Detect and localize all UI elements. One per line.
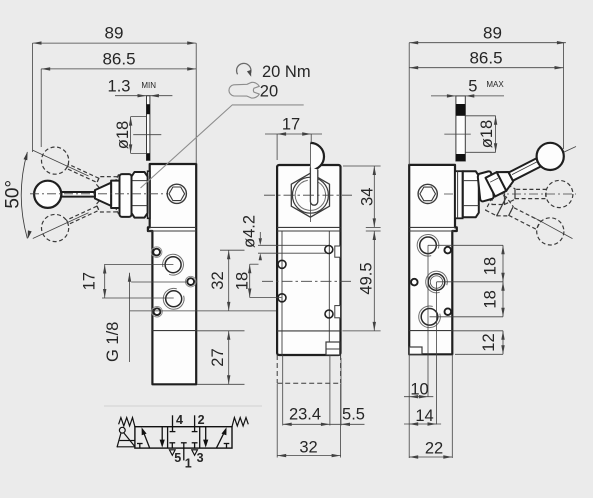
svg-text:MAX: MAX [486,80,504,89]
middle cell port stubs bottom [171,443,173,448]
left view lever centerline [30,193,168,195]
port 1 line [183,448,185,460]
front view hex nut [291,173,329,217]
right view vertical extension lines through body [427,245,429,397]
svg-text:27: 27 [209,348,227,366]
dimension 22 [409,456,452,458]
left view lever solid horizontal [111,181,119,208]
svg-text:G 1/8: G 1/8 [104,322,122,362]
swing radial line lower [33,213,89,239]
front view clip tab lower [335,306,341,318]
port 5 exhaust triangle [169,450,175,456]
box dividers [167,427,169,448]
svg-text:3: 3 [197,451,204,465]
dimension 10 [404,396,433,398]
left view body step lines [150,226,197,228]
right view nut hex [463,171,479,217]
dimension 23.4 and 5.5 [283,423,365,425]
port 2 line [194,415,196,426]
svg-text:5.5: 5.5 [342,406,365,424]
bar centerline right [444,133,471,135]
extension lines below front view [282,355,284,426]
dimension 86.5 left [41,68,196,70]
right view lever axis line down [531,216,572,238]
right view nut cap tilted [478,171,494,201]
front view inner vertical right [328,231,330,355]
left view port G1/8 bottom [166,291,182,307]
right view valve body [409,165,457,354]
right view nut washer [455,171,463,218]
front view clip tab upper [335,246,341,257]
extension stub small1 [220,249,245,251]
lever actuator symbol [119,427,125,433]
front view hidden base dashed [276,355,278,383]
dimension 89 left [33,42,197,44]
svg-text:ø4.2: ø4.2 [241,215,259,248]
svg-text:2: 2 [198,413,205,427]
dimension 17 left view [104,265,106,299]
left view hex socket [167,184,186,203]
dimension diam 18 left [130,117,132,154]
dimension 17 front view [265,133,322,135]
svg-text:ø18: ø18 [478,120,496,148]
right cell diagonal arrow [216,430,225,448]
left view lever nut hex [132,172,148,218]
dimension 14 [404,423,441,425]
left view valve body [148,164,196,384]
left cell diagonal arrow [143,430,150,448]
right cell down arrow [205,427,207,446]
50 degree swing arc [21,152,27,238]
spring left [119,418,135,427]
dimension 89 right [409,42,566,44]
dimension 49.5 [366,230,381,232]
svg-text:34: 34 [359,188,377,206]
dimension 5 MAX [431,95,504,97]
spring right [232,418,248,427]
bar centerline left [133,134,161,136]
dimension 12 [452,330,503,332]
dimension 32 left view [228,250,230,311]
wear band bar right [456,96,465,161]
svg-text:5: 5 [468,78,477,96]
leader line to nut [141,105,304,188]
front view mounting holes [278,260,286,268]
front view bottom-right notch [326,342,340,355]
right view port extension lines [428,244,503,246]
manifold line stub to bracket [196,330,244,332]
svg-text:32: 32 [209,271,227,289]
svg-text:50°: 50° [3,180,24,209]
right view bottom-left notch [409,347,422,354]
svg-text:23.4: 23.4 [289,406,321,424]
svg-text:89: 89 [105,24,124,43]
shared extension line small3 row [130,310,281,312]
port 3 exhaust triangle [192,450,198,456]
svg-text:89: 89 [483,23,502,42]
svg-text:20 Nm: 20 Nm [262,63,311,81]
right view port circles [420,237,437,254]
left view divider line [152,330,196,332]
extension lines below right view [408,354,410,458]
dimension diam 4.2 [258,244,327,246]
left cell blocked port [139,444,141,449]
svg-text:12: 12 [480,333,498,351]
left view port G1/8 top [165,257,181,273]
wear band bar left [147,96,150,161]
svg-text:5: 5 [174,451,181,465]
torque icon 20 Nm [237,63,251,74]
front view lever shaft [310,168,317,206]
valve box [135,427,232,448]
left view lever nut cap [120,174,132,217]
left cell down arrow [161,427,163,446]
port line small middle [131,281,187,283]
right view lever solid up [486,172,507,196]
extension lines top right [408,43,410,165]
svg-text:22: 22 [425,440,443,458]
front view centerline vertical [309,143,311,222]
svg-text:14: 14 [415,407,433,425]
extension lines top left [32,43,34,152]
right view lever dashed horizontal [492,184,505,205]
right view lever centerline [444,193,576,195]
right view lever dashed down [486,192,507,216]
left view mounting hole middle [187,278,194,285]
front view centerline horizontal [264,194,352,196]
left view mounting hole top [153,249,160,256]
right view step lines [409,226,455,228]
svg-text:4: 4 [176,413,183,427]
front view body [277,165,340,355]
svg-text:1: 1 [185,457,192,471]
right view hex socket [418,184,437,203]
svg-text:ø18: ø18 [114,121,132,149]
middle cell port stubs top [172,427,174,432]
right cell blocked port [226,444,228,449]
front view lever ball [310,143,324,170]
dimension 32 front bottom [277,455,340,457]
front view centerline middle [262,280,352,282]
dimension 34 [343,165,381,167]
dimension 1.3 MIN [115,95,172,97]
front view step double line [277,226,340,228]
svg-text:18: 18 [482,257,500,275]
right view lever axis line up [458,147,576,202]
svg-text:20: 20 [260,83,278,101]
svg-text:1.3: 1.3 [108,78,131,96]
right view small holes [444,247,451,254]
svg-text:86.5: 86.5 [469,49,502,68]
dimension 86.5 right [409,67,563,69]
dimension diam 18 right [495,116,497,153]
svg-text:10: 10 [410,381,428,399]
left view lever dashed down position [107,185,126,213]
front view manifold line [277,330,340,332]
svg-text:17: 17 [81,272,99,290]
svg-text:86.5: 86.5 [102,50,135,69]
svg-text:18: 18 [482,290,500,308]
bottom extension stub left view [197,383,245,385]
faint separator line [104,405,262,407]
swing radial line upper [33,150,89,176]
left view lever dashed up position [107,175,126,203]
svg-text:17: 17 [282,116,300,134]
left view mounting hole bottom [154,308,161,315]
port centerline big1 [104,264,173,266]
front view inner vertical left [281,231,283,355]
svg-text:18: 18 [234,272,252,290]
port 4 line [172,415,174,426]
svg-text:MIN: MIN [141,81,156,90]
dimension 27 [228,331,230,385]
wrench icon [229,82,259,98]
left view lever nut washer [148,171,150,218]
dimension 18 front view [250,263,259,265]
right view divider line [409,330,452,332]
port centerline big2 [102,297,174,299]
svg-text:49.5: 49.5 [358,262,376,294]
G 1/8 leader [129,273,131,362]
front view nut circles [292,177,328,213]
svg-text:32: 32 [299,439,317,457]
dimension 18 18 right view [502,245,504,316]
